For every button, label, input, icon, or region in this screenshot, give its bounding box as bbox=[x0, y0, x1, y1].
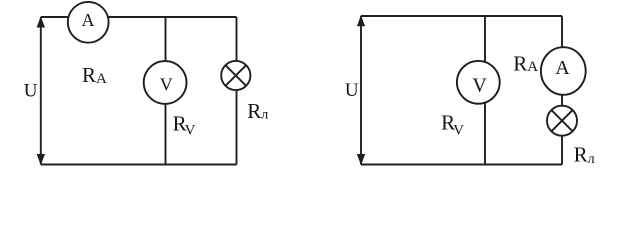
svg-text:U: U bbox=[24, 81, 38, 102]
svg-text:RA: RA bbox=[82, 63, 107, 87]
voltage source arrow U (right circuit) bbox=[357, 15, 365, 165]
svg-text:Rл: Rл bbox=[247, 99, 268, 123]
ammeter A2 (right circuit, right branch) bbox=[541, 47, 586, 95]
wire: left circuit right branch bbox=[236, 17, 238, 165]
voltage source arrow U (left circuit) bbox=[37, 16, 45, 165]
svg-text:A: A bbox=[555, 57, 570, 79]
wire: right circuit middle branch bbox=[484, 16, 486, 165]
voltmeter V2 (right circuit, middle branch) bbox=[457, 61, 500, 104]
svg-text:RA: RA bbox=[513, 51, 538, 75]
svg-text:RV: RV bbox=[173, 111, 196, 138]
wire: left circuit top wire bbox=[41, 16, 237, 18]
wire: right circuit right branch bbox=[561, 16, 563, 165]
svg-text:RV: RV bbox=[441, 111, 464, 139]
wire: right circuit top wire bbox=[361, 15, 562, 17]
ammeter A1 (left circuit, on top wire) bbox=[68, 2, 109, 43]
svg-text:V: V bbox=[160, 75, 173, 95]
svg-text:Rл: Rл bbox=[574, 142, 595, 166]
wire: left circuit bottom wire bbox=[41, 164, 237, 166]
svg-text:V: V bbox=[472, 74, 487, 96]
svg-text:U: U bbox=[345, 80, 359, 101]
lamp R_l2 (right circuit, right branch) bbox=[547, 106, 577, 136]
svg-text:A: A bbox=[82, 10, 95, 30]
wire: left circuit middle branch bbox=[165, 17, 167, 165]
lamp R_l1 (left circuit, right branch) bbox=[221, 61, 250, 90]
voltmeter V1 (left circuit, middle branch) bbox=[144, 61, 187, 104]
wire: right circuit bottom wire bbox=[361, 164, 562, 166]
